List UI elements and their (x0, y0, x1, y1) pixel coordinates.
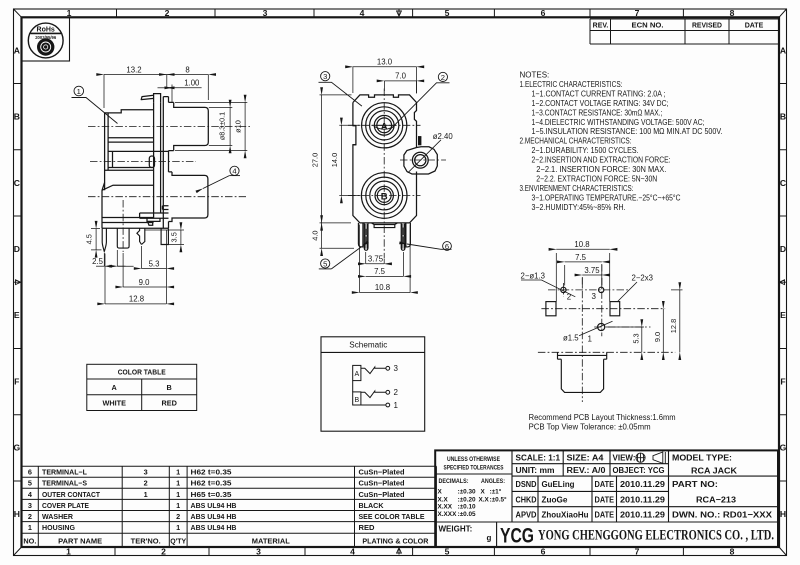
svg-text:9.0: 9.0 (139, 278, 151, 287)
svg-text:A: A (14, 45, 20, 55)
svg-text:DATE: DATE (595, 510, 615, 520)
svg-text:YCG: YCG (500, 525, 534, 548)
svg-text:6: 6 (541, 547, 546, 557)
svg-text:12.8: 12.8 (669, 319, 678, 333)
svg-text:5: 5 (445, 547, 450, 557)
svg-text:PART NAME: PART NAME (58, 536, 102, 545)
svg-text:ZuoGe: ZuoGe (542, 494, 568, 504)
svg-text:VIEW:: VIEW: (613, 453, 636, 463)
svg-text:UNIT: mm: UNIT: mm (516, 465, 555, 475)
svg-text:1: 1 (77, 87, 81, 96)
svg-text:MATERIAL: MATERIAL (252, 536, 291, 545)
svg-text:2−2.2. EXTRACTION FORCE: 5N: 2−2.2. EXTRACTION FORCE: 5N~30N (536, 175, 657, 184)
svg-text:ECN NO.: ECN NO. (632, 23, 664, 30)
svg-text:2−1.DURABILITY: 1500 CYCLES.: 2−1.DURABILITY: 1500 CYCLES. (532, 146, 639, 155)
svg-text:5: 5 (28, 479, 32, 488)
svg-text:REV.: A/0: REV.: A/0 (567, 465, 606, 475)
svg-text:OUTER CONTACT: OUTER CONTACT (42, 490, 100, 499)
svg-text:5: 5 (323, 260, 327, 269)
svg-text:5.3: 5.3 (632, 333, 641, 343)
svg-text:Q'TY: Q'TY (170, 536, 186, 545)
svg-text:H62 t=0.35: H62 t=0.35 (191, 479, 232, 488)
svg-text:1: 1 (28, 523, 32, 532)
svg-text:B: B (167, 383, 172, 392)
svg-text:1: 1 (176, 490, 180, 499)
svg-text:B: B (780, 112, 786, 122)
svg-text::±0.30: :±0.30 (458, 489, 477, 496)
svg-text:3: 3 (144, 468, 148, 477)
svg-text:1−2.CONTACT VOLTAGE RATING:: 1−2.CONTACT VOLTAGE RATING: 34V DC; (532, 99, 669, 108)
svg-text:CuSn−Plated: CuSn−Plated (359, 468, 405, 477)
svg-text:PLATING & COLOR: PLATING & COLOR (362, 536, 429, 545)
svg-text:DATE: DATE (745, 23, 764, 30)
svg-text:DATE: DATE (595, 479, 615, 489)
svg-text:H62 t=0.35: H62 t=0.35 (191, 468, 232, 477)
svg-text:RoHs: RoHs (37, 27, 55, 34)
svg-text:RED: RED (359, 523, 375, 532)
svg-text:F: F (14, 376, 19, 386)
svg-text:RED: RED (161, 399, 176, 408)
svg-text:ø8.3±0.1: ø8.3±0.1 (218, 112, 227, 140)
svg-text:1: 1 (144, 490, 148, 499)
svg-text:2: 2 (144, 479, 148, 488)
svg-text:7.0: 7.0 (395, 72, 407, 81)
svg-text:ø1.5: ø1.5 (563, 333, 579, 342)
svg-text:A: A (780, 45, 786, 55)
svg-text:SIZE: A4: SIZE: A4 (567, 453, 604, 463)
svg-text:1: 1 (67, 8, 72, 18)
svg-text:MODEL TYPE:: MODEL TYPE: (672, 453, 732, 463)
svg-text:ZhouXiaoHu: ZhouXiaoHu (542, 510, 589, 520)
svg-text:1−4.DIELECTRIC WITHSTANDING: 1−4.DIELECTRIC WITHSTANDING VOLTAGE: 500… (532, 118, 705, 127)
svg-text:C: C (780, 178, 786, 188)
svg-text:YONG CHENGGONG ELECTRONICS CO.: YONG CHENGGONG ELECTRONICS CO. , LTD. (538, 528, 774, 544)
svg-text:NO.: NO. (23, 536, 36, 545)
svg-text:A: A (381, 121, 388, 132)
svg-text:2: 2 (28, 512, 32, 521)
svg-text:1−5.INSULATION RESISTANCE: 1: 1−5.INSULATION RESISTANCE: 100 MΩ MIN.AT… (532, 127, 723, 136)
svg-text:2010.11.29: 2010.11.29 (620, 510, 665, 520)
svg-text:2−ø1.3: 2−ø1.3 (521, 271, 546, 280)
svg-text::±0.05: :±0.05 (458, 511, 477, 518)
svg-text:3.75: 3.75 (368, 254, 384, 263)
svg-text:OBJECT: YCG: OBJECT: YCG (613, 465, 665, 475)
svg-text:9.0: 9.0 (653, 332, 662, 342)
svg-text:2: 2 (176, 512, 180, 521)
svg-text:COLOR TABLE: COLOR TABLE (118, 367, 166, 376)
svg-text:PART NO:: PART NO: (672, 479, 718, 489)
svg-text:CuSn−Plated: CuSn−Plated (359, 479, 405, 488)
svg-text:X.XX: X.XX (438, 504, 453, 511)
svg-text:SPECIFIED TOLERANCES: SPECIFIED TOLERANCES (444, 465, 505, 472)
svg-text:8: 8 (185, 65, 189, 74)
svg-text:6: 6 (28, 468, 32, 477)
svg-text:2: 2 (161, 547, 166, 557)
svg-text:REVISED: REVISED (692, 23, 722, 30)
svg-text:1−1.CONTACT CURRENT RATING:: 1−1.CONTACT CURRENT RATING: 2.0A ; (532, 89, 666, 98)
svg-text:1: 1 (176, 468, 180, 477)
svg-text:ANGLES:: ANGLES: (481, 478, 505, 485)
svg-text:GuELing: GuELing (542, 479, 575, 489)
svg-text:ABS UL94 HB: ABS UL94 HB (191, 501, 237, 510)
svg-text:3: 3 (592, 292, 597, 301)
svg-text:3−1.OPERATING TEMPERATURE.−25: 3−1.OPERATING TEMPERATURE.−25°C~+65°C (532, 193, 681, 202)
svg-text:Schematic: Schematic (349, 341, 387, 350)
svg-text:SCALE: 1:1: SCALE: 1:1 (516, 453, 561, 463)
svg-text:2010.11.29: 2010.11.29 (620, 479, 665, 489)
svg-text:X: X (438, 489, 443, 496)
svg-text:3: 3 (394, 364, 399, 373)
svg-text:3: 3 (256, 547, 261, 557)
svg-text:3: 3 (28, 501, 32, 510)
svg-text:APVD: APVD (516, 510, 537, 520)
svg-text:5: 5 (445, 8, 450, 18)
svg-text:X.X: X.X (479, 496, 490, 503)
svg-text:5.3: 5.3 (149, 259, 160, 268)
svg-text:1: 1 (588, 335, 593, 344)
svg-text:E: E (14, 310, 20, 320)
svg-text:COVER PLATE: COVER PLATE (42, 501, 89, 510)
svg-text:2−2x3: 2−2x3 (632, 274, 653, 283)
svg-text:WHITE: WHITE (102, 399, 126, 408)
svg-text:C: C (14, 178, 20, 188)
svg-text:A: A (112, 383, 118, 392)
svg-text:2.MECHANICAL CHARACTERISTICS:: 2.MECHANICAL CHARACTERISTICS: (520, 137, 632, 146)
svg-text:ABS UL94 HB: ABS UL94 HB (191, 512, 237, 521)
svg-text:RCA JACK: RCA JACK (691, 466, 738, 476)
svg-text:1: 1 (176, 523, 180, 532)
svg-text::±1°: :±1° (490, 488, 502, 496)
svg-text:2−2.1. INSERTION FORCE:: 2−2.1. INSERTION FORCE: 30N MAX. (536, 165, 666, 174)
svg-text:1: 1 (66, 547, 71, 557)
svg-text:4: 4 (360, 8, 365, 18)
svg-text::±0.5°: :±0.5° (490, 495, 508, 503)
svg-text:B: B (14, 112, 20, 122)
svg-text:8: 8 (730, 8, 735, 18)
svg-text:TERMINAL−S: TERMINAL−S (42, 479, 87, 488)
svg-text:H: H (780, 509, 786, 519)
svg-text:3.ENVIRENMENT CHARACTERISTICS: 3.ENVIRENMENT CHARACTERISTICS: (520, 184, 634, 193)
svg-text:TER'NO.: TER'NO. (131, 536, 161, 545)
svg-text:2010.11.29: 2010.11.29 (620, 494, 665, 504)
svg-text:13.2: 13.2 (126, 65, 141, 74)
svg-text:7: 7 (635, 547, 640, 557)
svg-text:g: g (487, 534, 492, 543)
svg-text:7.5: 7.5 (575, 253, 587, 262)
svg-text:CHKD: CHKD (516, 494, 537, 504)
svg-text:2: 2 (394, 388, 399, 397)
svg-text:D: D (14, 244, 20, 254)
svg-text:X.XXX: X.XXX (438, 511, 458, 518)
svg-text:ø2.40: ø2.40 (433, 132, 454, 141)
svg-text:12.8: 12.8 (129, 295, 144, 304)
svg-text:1: 1 (176, 501, 180, 510)
svg-text:B: B (381, 191, 388, 202)
svg-text:10.8: 10.8 (375, 283, 390, 292)
svg-text:B: B (354, 397, 359, 404)
svg-text:1: 1 (394, 401, 399, 410)
svg-text:SEE COLOR TABLE: SEE COLOR TABLE (359, 512, 425, 521)
svg-text:UNLESS OTHERWISE: UNLESS OTHERWISE (447, 456, 501, 463)
svg-text:F: F (780, 376, 785, 386)
svg-text:2.5: 2.5 (92, 257, 104, 266)
svg-text:E: E (780, 310, 786, 320)
svg-text:1.00: 1.00 (184, 79, 200, 88)
svg-text:7.5: 7.5 (374, 267, 386, 276)
svg-text:DECIMALS:: DECIMALS: (439, 478, 469, 485)
svg-text:ABS UL94 HB: ABS UL94 HB (191, 523, 237, 532)
svg-text:1−3.CONTACT RESISTANCE: 30mΩ: 1−3.CONTACT RESISTANCE: 30mΩ MAX.; (532, 108, 663, 117)
svg-text:DATE: DATE (595, 494, 615, 504)
svg-text:10.8: 10.8 (574, 240, 589, 249)
svg-text:CuSn−Plated: CuSn−Plated (359, 490, 405, 499)
svg-text:2−2.INSERTION AND EXTRACTION: 2−2.INSERTION AND EXTRACTION FORCE: (532, 156, 671, 165)
svg-text:TERMINAL−L: TERMINAL−L (42, 468, 88, 477)
svg-text:8: 8 (730, 547, 735, 557)
svg-text:1.ELECTRIC CHARACTERISTICS:: 1.ELECTRIC CHARACTERISTICS: (520, 80, 623, 89)
svg-text:A: A (354, 371, 359, 378)
svg-text:4: 4 (232, 167, 236, 176)
svg-text:2: 2 (165, 8, 170, 18)
svg-text:13.0: 13.0 (377, 58, 393, 67)
svg-text:6: 6 (445, 242, 449, 251)
svg-text:3.5: 3.5 (170, 232, 179, 242)
svg-text:H: H (14, 509, 20, 519)
svg-text:G: G (13, 443, 20, 453)
svg-text:3.75: 3.75 (584, 266, 600, 275)
svg-text:ø10: ø10 (233, 120, 242, 133)
svg-text:X: X (481, 489, 486, 496)
svg-text:D: D (780, 244, 786, 254)
svg-text::±0.20: :±0.20 (458, 496, 477, 503)
svg-text:3: 3 (263, 8, 268, 18)
svg-text:WEIGHT:: WEIGHT: (439, 525, 473, 534)
svg-text:3−2.HUMIDTY:45%~85% RH.: 3−2.HUMIDTY:45%~85% RH. (532, 203, 626, 212)
svg-text:4: 4 (350, 547, 355, 557)
svg-text:H65 t=0.35: H65 t=0.35 (191, 490, 232, 499)
svg-text:BLACK: BLACK (359, 501, 385, 510)
svg-text:WASHER: WASHER (42, 512, 74, 521)
svg-text:X.X: X.X (438, 496, 449, 503)
svg-text:NOTES:: NOTES: (520, 71, 550, 80)
svg-text:14.0: 14.0 (330, 153, 339, 167)
svg-text:7: 7 (635, 8, 640, 18)
svg-text:PCB Top View Tolerance: ±0: PCB Top View Tolerance: ±0.05mm (529, 422, 651, 431)
svg-text:G: G (780, 443, 787, 453)
svg-text:DWN. NO.: RD01−XXX: DWN. NO.: RD01−XXX (672, 510, 772, 520)
svg-text:Recommend PCB Layout Thickn: Recommend PCB Layout Thickness:1.6mm (529, 413, 676, 422)
svg-text:3: 3 (323, 72, 327, 81)
svg-text:4.5: 4.5 (85, 234, 94, 244)
svg-text:6: 6 (541, 8, 546, 18)
svg-text:RCA−213: RCA−213 (696, 494, 736, 504)
svg-text::±0.10: :±0.10 (458, 504, 477, 511)
svg-text:REV.: REV. (593, 23, 609, 30)
svg-text:1: 1 (176, 479, 180, 488)
svg-text:4.0: 4.0 (310, 230, 319, 240)
svg-text:HOUSING: HOUSING (42, 523, 75, 532)
svg-text:DSND: DSND (516, 479, 537, 489)
svg-text:27.0: 27.0 (310, 153, 319, 167)
svg-text:2: 2 (441, 73, 445, 82)
